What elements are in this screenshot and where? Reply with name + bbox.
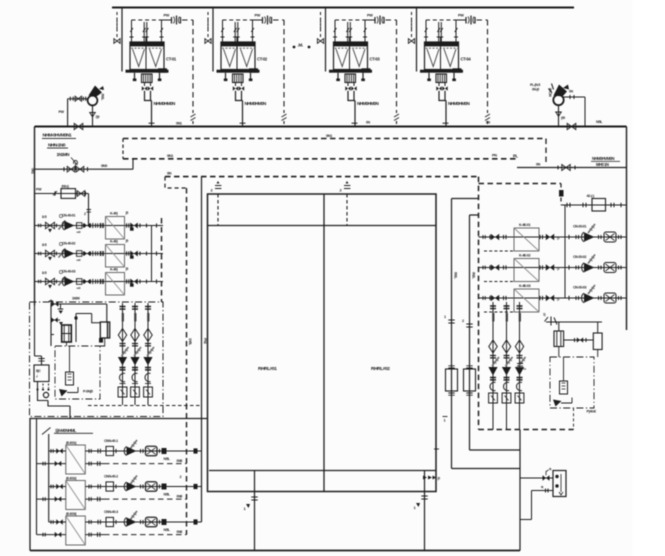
valve on bus (right) [567,123,576,129]
wire dashed C left staircase down [165,177,187,188]
eccentric reducer hook [132,373,137,381]
inline device [106,517,114,526]
eccentric reducer hook [145,373,150,381]
wire left bypass branch [35,159,134,169]
svg-text:CN-00-03: CN-00-03 [573,285,586,289]
wire CT-3 outlet to condenser bus [348,91,355,127]
drain ticks under B-C box [38,384,49,389]
hook [504,382,509,390]
wire dashed corner down [560,184,562,206]
diamond valve [131,329,139,342]
wire CT-2 drain dashed stub [207,12,209,38]
black valve [491,295,499,302]
pump FCP-2 [127,482,137,491]
drain tick [130,283,134,286]
flanges + tag on pipe D [448,320,454,323]
wire left suction manifold [34,127,36,306]
wire CT-2 bypass dashed to equalizer [273,20,284,113]
svg-text:8): 8) [549,467,551,471]
pipe break symbol on CT-2 equalizer [282,114,287,121]
pump CWP-3 [65,277,75,286]
svg-text:RHRL#02: RHRL#02 [371,366,390,372]
CT-3 basin (black) [329,70,372,73]
svg-text:0N1L: 0N1L [101,94,105,101]
wire expansion drop pipe [519,430,521,551]
svg-text:K-4E-02: K-4E-02 [519,254,531,258]
dosing pump triangle [59,389,68,397]
wire CT-4 outlet to condenser bus [439,91,446,127]
wire HX 1 bottom-left stub [37,463,66,465]
wire right plant dashed box left edge [478,177,480,430]
wire CT-1 outlet to condenser bus [145,91,152,127]
svg-text:PL-(N-5: PL-(N-5 [530,83,540,87]
wire gauge stem to bus [92,105,94,126]
CT-1 support legs [135,73,160,79]
wire column manifold dashed [88,405,202,407]
svg-text:CN-00-02: CN-00-02 [573,255,586,259]
svg-text:(E-E01(: (E-E01( [66,441,77,445]
wire right main riser [626,127,628,331]
CT-2 sump/motor hatched box [233,74,244,83]
flange [38,252,40,256]
svg-text:PW: PW [458,14,464,18]
svg-text:0N0: 0N0 [101,164,107,168]
end stub tick [194,448,198,453]
riser pipes into CT-1 [132,20,162,42]
Y-strainer square row 2 [106,245,125,268]
strainer box [515,393,524,403]
dosing pump column [69,346,71,372]
wire skid drain dashed [573,408,575,430]
wire HX 1 return (bottom right, dashed) [85,463,104,465]
svg-text:0N1L: 0N1L [454,272,458,279]
wire dashed bus B [123,158,517,160]
black cap [162,519,167,525]
CT-2 outlet valves [236,83,242,87]
svg-text:CT-01: CT-01 [166,57,177,62]
strainer square row 1 [514,228,539,251]
svg-text:NHM0HM0N: NHM0HM0N [154,101,177,106]
svg-text:PW: PW [59,110,65,114]
wire dashed bus A (chilled supply future) [123,138,546,140]
flanges before strainer [95,279,97,283]
wire chiller 1 bottom drop [254,471,256,551]
wire chilled pump row 2 [479,267,627,269]
tank drain blob [99,338,103,343]
butterfly valve row 1 [46,222,55,228]
svg-text:PW: PW [164,14,170,18]
black cap [162,484,167,490]
riser pipes into CT-2 [223,20,253,42]
CT-1 sump/motor hatched box [142,74,153,83]
svg-text:CN-00-01: CN-00-01 [573,224,586,228]
wire right rows connector vertical [564,205,566,298]
svg-text:CNN-40-1: CNN-40-1 [104,439,118,443]
svg-text:NHM0HM0N: NHM0HM0N [357,101,380,106]
drain tick [130,227,134,230]
flex [492,357,499,366]
svg-text:NHM-0HVM0N1: NHM-0HVM0N1 [43,133,72,139]
plate heat exchanger row 2 [66,481,86,510]
dashed drain under square [484,311,514,313]
flanges after strainer [126,223,128,227]
CT-3 outlet valves [348,83,354,87]
vertical booster column 3 (right) [519,302,521,430]
right make-up fitting [545,317,558,326]
wire dashed bus C (to chiller stubs) [165,176,479,178]
wire into right dosing skid [559,347,598,358]
wire device bottom stub staircase [520,491,553,520]
svg-text:1N0M: 1N0M [72,297,80,301]
expansion/degasser device box [553,471,566,497]
wire HX 3 bottom-left stub [37,534,66,536]
cooling tower CT-2 casing [221,42,255,70]
make-up valve cluster top [52,301,59,306]
right filter column [558,322,560,331]
cooling tower CT-2 supply pipe [212,8,214,72]
flex [122,347,129,356]
dashed drain under square [484,281,514,283]
valve on CT-1 supply [121,31,123,35]
flange [38,280,40,284]
CT-1 basin (black) [126,70,169,73]
svg-text:RHRL#01: RHRL#01 [258,366,277,372]
svg-text:CT-02: CT-02 [257,57,268,62]
svg-text:CNN-40-3: CNN-40-3 [104,510,118,514]
CT-3 fill V-pattern cell 2 [353,49,365,67]
svg-text:)5: )5 [126,267,129,271]
wire staircase drop from B-C to HX box [38,382,71,419]
wire dashed standby riser 2 (to bottom HX rows) [186,188,188,535]
ellipsis (more towers) [293,46,296,49]
black cap [162,448,167,454]
inline pump (down) [502,367,511,376]
wire chiller 2 bottom drop [424,471,426,551]
wire HX 1 outlet (top right) [85,450,201,452]
strainer square row 2 [514,259,539,282]
CT-4 outlet valves [439,83,445,87]
tee [92,223,94,228]
dosing skid dash-dot box [55,346,100,399]
vibration device [604,263,616,273]
wire condenser pump row 1 [35,225,164,227]
svg-text:1): 1) [543,313,545,317]
dashed stub chiller 1 [217,194,219,226]
check valve row 3 [84,279,91,284]
hook [517,382,522,390]
CT-4 cell divider [440,37,442,70]
svg-text:0N-(0: 0N-(0 [532,88,539,92]
pump CHWP-3 [584,293,595,303]
drain funnel symbol [90,113,96,117]
wire vent line to right riser [564,97,586,127]
device box B-C [34,365,49,382]
wire solid continuation to right riser [517,167,627,169]
svg-text:8-5: 8-5 [42,215,47,219]
wire top condenser-water header [112,6,574,8]
tee [92,279,94,284]
wire chilled supply pipe D [452,199,521,469]
wire HX 2 return (bottom right, dashed) [85,498,104,500]
brine tank [100,322,109,338]
svg-text:0N: 0N [536,162,541,166]
flex [588,285,595,294]
svg-text:0N1: 0N1 [326,134,332,138]
inline pump (down) [130,357,139,366]
svg-text:N5L: N5L [164,457,171,461]
discharge fitting [77,279,82,285]
wire dashed A left connector [122,139,124,159]
end stub tick [194,519,198,524]
strainer square row 3 [514,289,539,312]
right tank link + valve [564,339,594,341]
black valve 2 [546,234,554,241]
wire CT-4 spray manifold [426,19,458,21]
wire CT-1 drain dashed stub [116,12,118,38]
wire chilled pump row 1 [479,236,627,238]
check valve on gauge feed [69,97,71,101]
cooling tower CT-1 supply pipe [121,8,123,72]
wire make-up feed line [51,303,107,305]
CT-4 support legs [429,73,454,79]
flanges before strainer [95,223,97,227]
balance device on pipe E [464,369,476,391]
arrows at bottom-right inside box [423,476,436,480]
pressure gauge cluster (left, above bus) [88,96,98,106]
wire right dashed box top edge [479,183,562,185]
CT-1 cell divider [145,37,147,70]
CT-4 fill V-pattern cell 1 [427,49,439,67]
wire feed corner into brine tank [106,304,108,322]
svg-text:PN: PN [492,154,497,158]
end tick [156,223,158,227]
cooling tower CT-4 casing [425,42,459,70]
inline pump (down) [143,357,152,366]
wire CT-2 spray manifold [223,19,255,21]
svg-text:P-0N)5: P-0N)5 [83,390,93,394]
wire HX 2 top-left stub [49,486,66,488]
vertical booster column 3 (left) [147,303,149,405]
wire gauge corner to bus [67,99,69,127]
pump CWP-1 [65,221,75,230]
flanges after strainer [126,251,128,255]
softener column (double wall) [62,325,72,342]
flange [38,224,40,228]
svg-text:PN1: PN1 [203,338,207,344]
wire left manifold continuation [35,306,42,366]
right dosing pump triangle [553,400,562,407]
black valve [491,264,499,271]
cooling tower CT-3 casing [334,42,368,70]
svg-text:CT-04: CT-04 [461,57,472,62]
svg-text:m0: m0 [77,286,81,290]
black valve 2 [546,264,554,271]
pump FCP-1 [127,447,137,456]
strainer box [144,387,153,397]
wire HX 2 outlet (top right) [85,486,201,488]
device [146,482,158,492]
valve on CT-4 supply [416,31,418,35]
wire CT-3 drain dashed stub [320,12,322,38]
CT-2 fill V-pattern cell 1 [224,49,236,67]
butterfly valve row 3 [46,278,55,284]
flanges before strainer [95,251,97,255]
valve on CT-2 supply [212,31,214,35]
svg-text:CN-40-01: CN-40-01 [62,213,75,217]
plate heat exchanger row 1 [66,445,86,474]
flex [130,476,137,485]
black valve row 2 [130,251,138,257]
svg-text:42-(-): 42-(-) [587,194,596,198]
gauge circle [43,392,48,397]
strainer box [131,387,140,397]
CT-3 sump/motor hatched box [345,74,356,83]
wire dashed standby riser 1 [161,218,163,302]
inline pump (down) [488,367,497,376]
black valve [491,234,499,241]
wire HX supply manifold outer [36,419,38,535]
chemical treatment dash-dot enclosure (left) [30,302,164,417]
pipe break symbol on CT-3 equalizer [394,114,399,121]
flex connector row 2 [59,249,66,258]
svg-text:CNN-40-2: CNN-40-2 [104,475,118,479]
cooling tower CT-1 casing [130,42,164,70]
cooling tower CT-3 supply pipe [325,8,327,72]
CT-4 basin (black) [420,70,463,73]
CT-4 sump/motor hatched box [436,74,447,83]
CT-2 basin (black) [217,70,260,73]
svg-text:1)0-M0NHML: 1)0-M0NHML [55,428,77,433]
wire CT-2 outlet to condenser bus [236,91,243,127]
flex [519,357,526,366]
flex [130,440,137,449]
flex [134,347,141,356]
svg-text:N5L: N5L [596,120,603,124]
svg-text:K-40): K-40) [110,212,119,216]
inline pump (down) [118,357,127,366]
svg-text:(N0-(): (N0-() [62,184,69,188]
vertical booster column 1 (right) [492,302,494,430]
wire strainer branch [35,193,89,195]
wire HX 2 bottom-left stub [37,498,66,500]
svg-text:8(: 8( [541,485,543,489]
wire CT-3 bypass dashed to equalizer [386,20,397,113]
flex [588,224,595,233]
wire zigzag to brine tank [92,314,101,323]
svg-text:NHM0HM0N: NHM0HM0N [245,101,268,106]
svg-text:P)40-E: P)40-E [587,410,597,414]
wire tank bottoms into dosing skid [67,338,105,346]
vertical booster column 1 (left) [122,303,124,405]
svg-text:PW: PW [255,14,261,18]
valve on bus (left) [74,123,83,129]
wire HX 3 top-left stub [49,521,66,523]
wire HX 3 return (bottom right, dashed) [85,534,104,536]
svg-text:NHM0HVM0N: NHM0HVM0N [592,156,614,161]
svg-text:2)0: 2)0 [96,115,100,119]
device [146,517,158,527]
hook [490,382,495,390]
CT-1 fill V-pattern cell 2 [150,49,162,67]
pump FCP-3 [127,518,137,527]
wire CT-1 bypass dashed to equalizer [182,20,193,113]
svg-text:8-5: 8-5 [42,243,47,247]
svg-text:.M.: .M. [298,43,303,48]
wire HX 1 top-left stub [49,450,66,452]
svg-text:)5: )5 [126,211,129,215]
svg-text:(99: (99 [561,116,565,120]
svg-text:K-40): K-40) [110,268,119,272]
end tick [156,251,158,255]
valve on CT-3 drain stub [317,39,323,44]
CT-3 drift eliminator (black bar) [334,42,367,46]
wire chilled pump row 3 [479,297,627,299]
strainer box [118,387,127,397]
inline pump (down) [515,367,524,376]
wire device top stub [520,477,553,479]
CT-3 support legs [338,73,363,79]
CT-4 fill V-pattern cell 2 [444,49,456,67]
svg-text:m0: m0 [77,230,81,234]
wire middle riser [76,314,92,343]
wire right dashed box bottom edge [479,429,574,431]
wire condenser pump row 3 [35,281,164,283]
wire HX supply manifold inner [48,434,50,522]
flanges after strainer [126,279,128,283]
svg-text:0N1: 0N1 [176,121,182,125]
svg-text:m0: m0 [77,258,81,262]
wire CT-4 drain dashed stub [411,12,413,38]
link fitting [139,252,141,256]
cooling tower CT-4 supply pipe [416,8,418,72]
diamond valve [515,340,523,353]
vibration device [604,232,616,242]
discharge fitting [77,251,82,257]
right dosing pump column [563,357,565,381]
strainer box [502,393,511,403]
svg-text:NHM0HM0N: NHM0HM0N [448,101,471,106]
valve on CT-3 supply [325,31,327,35]
svg-text:2: 2 [462,319,464,323]
riser pipes into CT-3 [335,20,365,42]
svg-text:)5: )5 [126,239,129,243]
CT-2 cell divider [236,37,238,70]
control valve group on bypass [63,167,65,171]
wire CT-4 bypass dashed to equalizer [477,20,488,113]
diamond valve [118,329,126,342]
CT-1 fill V-pattern cell 1 [133,49,145,67]
wire main condenser water bus [35,126,627,128]
svg-text:CN-40-03: CN-40-03 [62,269,75,273]
eccentric reducer hook [120,373,125,381]
wire pressure device line [561,204,627,206]
dashed drain under square [484,250,514,252]
end tick [156,279,158,283]
plate heat exchanger row 3 [66,516,86,545]
right solution tank [597,322,599,333]
wire HX 3 outlet (top right) [85,521,201,523]
svg-text:0N: 0N [167,172,172,176]
strainer box [489,393,498,403]
flex [147,347,154,356]
wire CT-3 spray manifold [335,19,367,21]
black valve row 1 [130,223,138,229]
pump CHWP-1 [584,232,595,242]
svg-text:1N1MN: 1N1MN [57,152,70,157]
valve on continuation [562,165,570,171]
drain tick [130,255,134,258]
strainer box [61,189,76,199]
